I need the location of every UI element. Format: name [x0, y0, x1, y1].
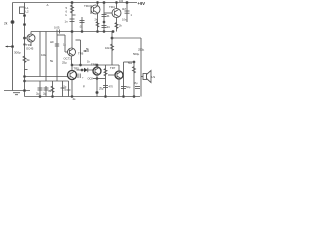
- node G: [71, 31, 73, 33]
- wire TR3 base: [90, 5, 92, 14]
- capacitor C6: [102, 14, 107, 16]
- svg-text:1: 1: [131, 13, 133, 17]
- wire TR1 base: [25, 37, 28, 39]
- capacitor C8: [121, 86, 126, 88]
- svg-text:.01: .01: [106, 14, 110, 18]
- svg-text:OC8: OC8: [88, 77, 94, 81]
- label TR3: [84, 4, 90, 8]
- transistor TR6: [93, 67, 101, 75]
- node P1: [39, 96, 41, 98]
- svg-text:8µ: 8µ: [135, 81, 138, 85]
- node N5: [97, 2, 99, 4]
- node S3: [71, 64, 73, 66]
- svg-text:1k: 1k: [87, 60, 90, 64]
- node H: [103, 2, 105, 4]
- label bottom mid2: [126, 85, 131, 89]
- svg-text:1n: 1n: [65, 20, 69, 24]
- node F: [71, 2, 73, 4]
- svg-text:0.05: 0.05: [54, 26, 60, 30]
- wire 38 horizontal: [112, 37, 141, 39]
- wire vertical branch 46: [45, 32, 47, 82]
- wire TR4 collector to rail: [116, 3, 118, 9]
- node J: [112, 31, 114, 33]
- label 4k7: [122, 7, 133, 22]
- wire emitter bus: [93, 78, 106, 80]
- label 100: [119, 0, 124, 3]
- wire TR7 collector stub: [118, 65, 120, 71]
- node S5: [80, 64, 82, 66]
- label 500u: [138, 48, 145, 52]
- resistor R13: [104, 69, 107, 76]
- wire vertical 134: [133, 62, 135, 97]
- wire vertical 123.5: [123, 62, 125, 97]
- capacitor C2 on feed: [70, 18, 75, 20]
- label C3: [54, 26, 60, 30]
- node N2: [97, 31, 99, 33]
- svg-text:500µ: 500µ: [133, 52, 140, 56]
- label P: [83, 85, 86, 89]
- svg-text:+: +: [82, 77, 84, 80]
- wire TR7 emitter down: [118, 79, 120, 97]
- wire left rail: [12, 3, 14, 91]
- wire vertical 72 from rail: [71, 3, 73, 49]
- label 1k: [63, 43, 66, 47]
- wire branch to TR5 base: [25, 76, 68, 78]
- node N3: [103, 31, 105, 33]
- wire TR3 collector to rail: [97, 3, 99, 6]
- capacitor C13 bottom: [68, 81, 70, 97]
- node P2: [52, 96, 54, 98]
- transistor TR2: [68, 48, 76, 56]
- wire vertical 127: [126, 3, 128, 23]
- svg-text:HF: HF: [50, 40, 54, 44]
- wire TR7 base: [108, 74, 115, 76]
- node N4: [116, 2, 118, 4]
- resistor R6 marks: [115, 23, 118, 29]
- svg-text:10k: 10k: [41, 53, 46, 57]
- wire TR5 top stub: [71, 65, 73, 71]
- svg-text:TR7: TR7: [110, 66, 116, 70]
- ground: [13, 92, 20, 94]
- label TR1: [26, 43, 34, 51]
- transistor TR3: [91, 5, 100, 14]
- svg-text:k: k: [66, 13, 68, 17]
- svg-text:2k: 2k: [119, 24, 122, 28]
- wire bottom rail: [25, 96, 141, 98]
- svg-text:OC45: OC45: [26, 47, 34, 51]
- wire TR2 emitter down: [71, 56, 73, 65]
- wire TR4 emitter down: [116, 18, 118, 32]
- transistor TR1: [27, 34, 35, 42]
- label 25u: [99, 87, 104, 91]
- svg-text:TR3: TR3: [84, 4, 90, 8]
- label 25u: [36, 92, 40, 96]
- potentiometer VR1: [80, 40, 82, 65]
- capacitor C4 branch: [81, 17, 83, 32]
- svg-text:P.: P.: [83, 85, 86, 89]
- wire vertical 112: [111, 32, 113, 66]
- wire ground line bottom left: [4, 90, 30, 92]
- node P4: [105, 96, 107, 98]
- svg-text:470: 470: [109, 85, 114, 89]
- svg-text:4k7: 4k7: [122, 7, 127, 11]
- label OC8: [88, 77, 94, 81]
- wire top supply rail: [13, 2, 138, 4]
- label bottom mid: [109, 85, 114, 89]
- node P3: [71, 96, 73, 98]
- wire audio bus 65: [72, 64, 120, 66]
- svg-text:25: 25: [64, 89, 67, 92]
- svg-text:TR6: TR6: [78, 52, 84, 56]
- resistor R2 on rail: [23, 56, 26, 63]
- svg-text:.04: .04: [106, 25, 110, 29]
- capacitor C9: [135, 81, 138, 85]
- svg-text:300p: 300p: [14, 51, 21, 55]
- label vol: [86, 47, 90, 51]
- wire TR6 emitter to rail: [96, 79, 98, 97]
- capacitor C15: [103, 85, 108, 87]
- label HF: [50, 40, 54, 44]
- coil L1 box: [20, 7, 25, 14]
- label TR7: [110, 66, 116, 70]
- label TR4: [109, 5, 115, 9]
- node N1: [81, 31, 83, 33]
- resistor R8: [111, 44, 114, 51]
- label +9V: [138, 1, 146, 6]
- node C: [12, 46, 14, 48]
- label VC1: [14, 51, 21, 55]
- capacitor C17: [55, 43, 59, 45]
- node S2: [24, 80, 26, 82]
- label 2k2b: [43, 92, 47, 96]
- node R: [133, 61, 135, 63]
- svg-text:2k: 2k: [4, 22, 8, 26]
- wire stub at 69.5: [25, 69, 28, 71]
- label A: [47, 3, 50, 7]
- resistor R11: [133, 67, 136, 74]
- diode D1: [84, 68, 88, 72]
- wire middle bus: [31, 31, 113, 33]
- wire second vertical rail: [24, 3, 26, 97]
- transistor TR7: [115, 71, 123, 79]
- svg-text:LS: LS: [152, 75, 156, 79]
- node L: [96, 64, 98, 66]
- node Q2: [96, 91, 98, 93]
- wire TR3 emitter down: [97, 13, 99, 31]
- capacitor C14: [77, 74, 79, 79]
- wire jog to 134: [124, 61, 135, 63]
- svg-text:5k: 5k: [86, 47, 90, 51]
- node D: [24, 44, 26, 46]
- transistor TR5: [68, 71, 77, 80]
- node S4: [81, 69, 83, 71]
- label L1: [26, 6, 30, 14]
- node E: [24, 37, 26, 39]
- label 100k: [41, 53, 46, 57]
- svg-text:5k: 5k: [50, 59, 54, 63]
- svg-text:10k: 10k: [105, 46, 110, 50]
- wire lower bus 81: [25, 80, 69, 82]
- label TR2: [62, 57, 71, 65]
- svg-text:L2: L2: [26, 10, 30, 14]
- wire TR5 emitter down: [71, 80, 73, 97]
- label 56k: [66, 6, 68, 17]
- capacitor VC1 tuning with arrow: [6, 46, 13, 48]
- wire TR5 collector right: [77, 69, 94, 71]
- node S1: [24, 76, 26, 78]
- wire vertical 105.5: [105, 65, 107, 97]
- node P5: [123, 96, 125, 98]
- node M: [24, 90, 26, 92]
- label C12: [64, 86, 67, 92]
- transistor TR4: [112, 9, 121, 18]
- capacitor C3 series on bus: [56, 30, 58, 34]
- wire vertical branch 65 to TR2 base: [64, 35, 66, 52]
- svg-text:100: 100: [119, 0, 124, 3]
- label VR1: [50, 59, 54, 63]
- label LS: [152, 75, 156, 79]
- wire vertical branch 57: [56, 34, 58, 82]
- svg-text:2µ: 2µ: [36, 92, 40, 96]
- node P6: [133, 96, 135, 98]
- svg-text:A·: A·: [47, 3, 50, 7]
- label 4.5: [73, 97, 77, 101]
- node T: [103, 21, 105, 23]
- capacitor C11 bottom: [45, 86, 47, 97]
- wire vertical branch 40: [39, 32, 41, 77]
- speaker LS: [141, 76, 143, 78]
- label 5: [128, 61, 133, 65]
- node Q1: [96, 78, 98, 80]
- label TR5: [74, 67, 80, 71]
- svg-text:TR4: TR4: [109, 5, 115, 9]
- wire TR4 base: [104, 12, 112, 14]
- wire TR1 emitter: [30, 42, 32, 46]
- svg-text:25µ: 25µ: [62, 61, 67, 65]
- svg-text:50µ: 50µ: [126, 85, 131, 89]
- wire stub at node F2: [72, 14, 76, 16]
- wire TR1 collector: [30, 32, 32, 35]
- label 8k: [49, 89, 53, 93]
- label 1k: [87, 60, 90, 64]
- label R2: [27, 58, 31, 62]
- node A: [24, 15, 26, 17]
- capacitor C7: [102, 25, 107, 27]
- label TR6: [78, 52, 84, 56]
- node A2: [24, 24, 26, 26]
- wire IF transformer vertical: [103, 3, 105, 32]
- svg-text:10n: 10n: [122, 18, 127, 22]
- node B: [11, 21, 14, 24]
- svg-text:2µ: 2µ: [43, 92, 47, 96]
- svg-text:+9V: +9V: [138, 1, 146, 6]
- resistor R1: [71, 5, 74, 13]
- wire TR6 emitter down: [96, 75, 98, 79]
- capacitor C10 bottom: [39, 81, 41, 97]
- node K: [111, 37, 113, 39]
- svg-text:.01: .01: [79, 25, 83, 29]
- wire TR6 collector up: [96, 65, 98, 67]
- label 2k2: [4, 22, 8, 26]
- svg-text:250µ: 250µ: [138, 48, 145, 52]
- resistor R12 bottom: [52, 81, 54, 97]
- wire right vertical 141: [140, 38, 142, 97]
- svg-text:5k: 5k: [27, 58, 31, 62]
- capacitor C12 bottom: [62, 81, 64, 97]
- label 10k: [105, 46, 110, 50]
- capacitor C16: [125, 10, 130, 12]
- resistor R5: [96, 22, 99, 28]
- node I: [126, 2, 128, 4]
- svg-text:4s: 4s: [73, 97, 77, 100]
